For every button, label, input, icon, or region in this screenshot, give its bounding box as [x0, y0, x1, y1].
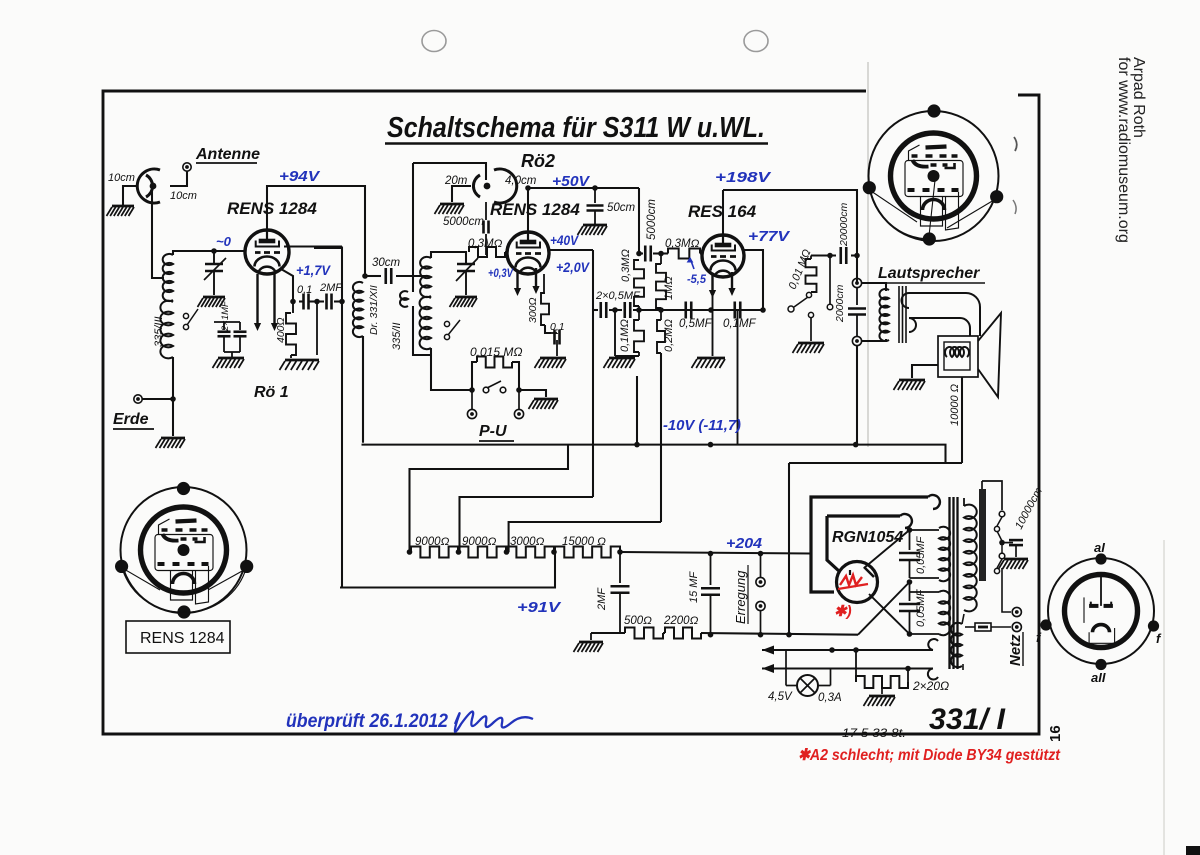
label 15MF — [688, 571, 700, 603]
ground variable capacitor 1 — [198, 297, 226, 307]
wire IF caps — [639, 252, 668, 254]
svg-text:Schaltschema für S311 W u.WL.: Schaltschema für S311 W u.WL. — [387, 112, 765, 144]
wire bottom row y633 — [591, 633, 858, 635]
svg-text:+94V: +94V — [279, 168, 321, 185]
ground 50cm — [578, 225, 608, 235]
node caps mid — [612, 307, 618, 313]
svg-text:Erregung: Erregung — [733, 570, 748, 624]
label 9000Ω a — [415, 536, 450, 548]
wire coil bottom to Erde node — [172, 357, 174, 436]
label +1,7V — [296, 262, 332, 278]
wire 0,015 bypass right — [512, 362, 519, 390]
svg-text:10000 Ω: 10000 Ω — [949, 384, 961, 426]
heater line 1 — [762, 639, 938, 654]
label Rö2 — [521, 151, 555, 171]
capacitor 2000cm — [848, 288, 866, 336]
wire speaker box down — [961, 377, 963, 463]
svg-text:+0,3V: +0,3V — [488, 266, 514, 280]
wire tube1 top to +94V rail — [267, 186, 365, 276]
svg-text:0,2MΩ: 0,2MΩ — [663, 319, 675, 352]
ground tube2 cathode — [535, 358, 567, 368]
transformer core — [950, 497, 958, 669]
node +204 760 — [758, 551, 764, 557]
scan crease line — [867, 62, 869, 447]
svg-text:Erde: Erde — [113, 411, 149, 428]
tube RGN1054 circle — [837, 562, 878, 603]
label 5000cm rotated — [646, 199, 658, 240]
wire H497 — [460, 497, 594, 552]
node grid 1 — [211, 248, 217, 254]
wire antenna terminal to coupler — [170, 171, 187, 186]
wire Erde terminal to node — [142, 398, 173, 400]
switch 0,01MΩ — [788, 292, 814, 317]
wire 20m to ground — [452, 186, 471, 202]
resistor 3000Ω — [507, 547, 554, 558]
label 0,2MΩ — [663, 319, 675, 352]
wire H2 line — [789, 462, 962, 464]
svg-text:aII: aII — [1091, 670, 1106, 685]
diagonal tube to cap2 — [869, 594, 910, 634]
label RES 164 — [688, 202, 757, 221]
svg-text:for www.radiomuseum.org: for www.radiomuseum.org — [1115, 57, 1132, 243]
tube socket bottom left — [115, 482, 253, 619]
node +204 710 — [708, 551, 714, 557]
node res row 506 — [504, 549, 510, 555]
node bottom row 760 — [758, 632, 764, 638]
ground 2x20Ω — [864, 688, 896, 706]
wire 0,1MF down to H1 — [737, 310, 739, 445]
svg-text:0,1: 0,1 — [550, 321, 565, 333]
wire +91V line — [340, 552, 555, 588]
label 0,015MΩ — [470, 345, 523, 359]
svg-text:0,05MF: 0,05MF — [915, 588, 927, 627]
node bottom row 710 — [708, 632, 714, 638]
label 30cm — [372, 257, 401, 269]
wire cap mid down — [316, 302, 318, 356]
Erregung terminal top — [756, 554, 765, 587]
capacitor 5000cm (grid2) — [484, 202, 489, 255]
wire +198V rail — [723, 190, 857, 283]
node P-U left — [469, 387, 475, 393]
heater line 2 — [762, 664, 938, 679]
wire coil2 top to grid net — [431, 252, 466, 264]
node cap column bottom — [907, 631, 913, 637]
wire 30cm line — [365, 275, 428, 277]
svg-text:RENS 1284: RENS 1284 — [140, 630, 225, 647]
wire +204 line — [620, 552, 811, 554]
label +2,0V — [556, 259, 590, 275]
label 0,1MΩ — [619, 319, 631, 352]
speaker loop bottom — [909, 318, 970, 336]
svg-text:0,1MF: 0,1MF — [723, 318, 757, 330]
label 500Ω — [624, 615, 652, 627]
node heater 908 — [905, 666, 911, 672]
P-U terminal left — [467, 392, 476, 419]
svg-text:500Ω: 500Ω — [624, 615, 652, 627]
punch hole right — [744, 31, 768, 52]
svg-text:1MΩ: 1MΩ — [663, 276, 675, 300]
cathode arrow tube1 b — [271, 272, 278, 331]
speaker coil inside — [945, 347, 969, 357]
blue label -10V — [663, 417, 741, 434]
label 15000Ω — [562, 536, 606, 548]
variable capacitor C tune 1 — [204, 251, 226, 295]
socket label aI — [1094, 540, 1105, 555]
svg-text:2200Ω: 2200Ω — [663, 615, 699, 627]
node 30cm junction — [362, 273, 368, 279]
wire plate loop bottom — [811, 554, 834, 593]
tap switch a — [994, 511, 1004, 531]
speaker terminal bottom — [852, 336, 861, 345]
capacitor 0,5MF — [686, 302, 692, 319]
socket label f left — [1036, 630, 1042, 645]
svg-text:5000cm: 5000cm — [443, 216, 484, 228]
svg-text:RENS 1284: RENS 1284 — [227, 199, 317, 218]
cathode arrow tube2 b — [532, 268, 539, 294]
node res row 620 — [617, 549, 623, 555]
wire cap row — [299, 300, 342, 302]
wire +50V drop — [638, 188, 640, 254]
wire tube2 anode — [549, 249, 593, 251]
vertical wire x413 — [412, 163, 414, 292]
wire H2 to PSU — [788, 463, 790, 635]
P-U terminal right — [514, 392, 523, 419]
node bottom row 789 — [786, 632, 792, 638]
paper edge shadow — [1163, 540, 1165, 855]
label +50V — [552, 173, 591, 190]
socket label f right — [1156, 631, 1162, 646]
label 2200Ω — [663, 615, 699, 627]
ground 10000cm — [999, 559, 1029, 569]
node 830 — [827, 253, 833, 259]
tube RES 164 circle — [702, 235, 744, 277]
HT loop outer — [811, 495, 940, 553]
Erde terminal — [134, 395, 142, 403]
wire coupler down to coil tap — [152, 190, 164, 278]
svg-text:+91V: +91V — [517, 599, 562, 616]
band switch 2 — [444, 320, 460, 340]
label 2x1MF — [220, 300, 231, 332]
choke Dr 331/XII — [353, 282, 363, 337]
label 0,3MΩ grid2 — [468, 238, 503, 250]
svg-text:10cm: 10cm — [170, 190, 197, 202]
socket wires top right — [869, 180, 994, 239]
label 2x0,5MF — [595, 290, 641, 302]
node cap row left — [290, 299, 296, 305]
cathode arrow tube1 a — [254, 274, 261, 331]
svg-text:2×20Ω: 2×20Ω — [912, 679, 949, 693]
wire 0,2MΩ down to H522 — [660, 353, 662, 522]
HT secondary winding — [964, 498, 977, 611]
label Erde — [113, 411, 154, 429]
resistor 500Ω — [625, 628, 663, 639]
svg-text:15000 Ω: 15000 Ω — [562, 536, 606, 548]
svg-text:RENS 1284: RENS 1284 — [490, 200, 580, 219]
resistor 300Ω — [541, 274, 551, 333]
coil 335/III lower — [160, 301, 173, 359]
speaker terminal top — [852, 278, 861, 287]
svg-text:30cm: 30cm — [372, 257, 401, 269]
cathode arrow RES164 a — [709, 274, 716, 298]
node IF right — [658, 251, 664, 257]
resistor 15000Ω — [555, 547, 620, 558]
node cap column mid — [907, 579, 913, 585]
switch P-U — [483, 381, 506, 393]
svg-text:+40V: +40V — [550, 232, 579, 248]
svg-text:Dr. 331/XII: Dr. 331/XII — [368, 285, 380, 335]
label 400Ω — [275, 317, 287, 343]
wire P-U right to ground — [521, 390, 546, 397]
capacitor 0,1 (tube2) — [555, 330, 561, 345]
label 10000cm — [1013, 486, 1045, 532]
speaker driver box — [938, 336, 978, 377]
node heater 856 — [853, 647, 859, 653]
red label *) — [834, 603, 852, 620]
resistor 0,3MΩ to RES164 grid — [668, 249, 703, 259]
resistor 0,3MΩ vertical — [634, 260, 644, 310]
speaker loop top — [902, 293, 980, 336]
svg-text:✱A2 schlecht; mit Diode BY34 g: ✱A2 schlecht; mit Diode BY34 gestützt — [798, 747, 1061, 764]
svg-text:17 5 33 8t.: 17 5 33 8t. — [842, 726, 906, 740]
label RGN1054 — [832, 529, 903, 546]
svg-text:0,3MΩ: 0,3MΩ — [620, 249, 632, 282]
page number 16 — [1047, 725, 1064, 742]
svg-text:9000Ω: 9000Ω — [462, 536, 497, 548]
svg-text:2×0,5MF: 2×0,5MF — [595, 290, 641, 302]
svg-text:+1,7V: +1,7V — [296, 262, 332, 278]
label 0,3MΩ vertical — [620, 249, 632, 282]
fuse — [963, 623, 1011, 670]
node Erde junction — [170, 396, 176, 402]
capacitor 2MF (filter) — [611, 552, 630, 633]
node res row 554 — [551, 549, 557, 555]
filament winding upper — [910, 527, 951, 581]
svg-text:-5,5: -5,5 — [687, 272, 706, 286]
label 40cm — [505, 175, 537, 187]
tube Rö2 RENS 1284 circle — [507, 232, 549, 274]
svg-text:0,1MΩ: 0,1MΩ — [619, 319, 631, 352]
svg-text:0,5MF: 0,5MF — [679, 318, 713, 330]
svg-text:Netz: Netz — [1007, 634, 1024, 666]
wire terminal top to primary — [861, 283, 886, 291]
node row 639 — [636, 307, 642, 313]
resistor 0,2MΩ below row — [657, 310, 665, 353]
cathode arrow tube2 a — [514, 270, 521, 296]
ground speaker — [894, 380, 926, 390]
tap switch b — [994, 545, 1004, 574]
node taps — [997, 531, 1005, 545]
label 0,01MΩ — [787, 248, 814, 291]
label +40V — [550, 232, 579, 248]
label 10cm left — [108, 172, 135, 184]
svg-text:15 MF: 15 MF — [688, 571, 700, 603]
label 9000Ω b — [462, 536, 497, 548]
label +91V — [517, 599, 562, 616]
node H1 710 — [708, 442, 714, 448]
Erregung terminal bottom — [756, 601, 765, 634]
label 1MΩ vertical — [663, 276, 675, 300]
resistor 0,01MΩ — [806, 256, 817, 293]
svg-text:2MF: 2MF — [319, 282, 343, 294]
capacitor 2x0,5MF b — [625, 302, 631, 318]
credit text for www.radiomuseum.org — [1115, 57, 1132, 243]
capacitor 0,1MF — [735, 302, 741, 319]
label 0,05MF a — [915, 535, 927, 574]
ground RES cathode — [692, 358, 726, 368]
svg-text:2×1MF: 2×1MF — [220, 300, 231, 332]
wire tube1 cathode branch — [281, 269, 293, 302]
resistor 0,015MΩ — [477, 357, 512, 368]
label 20000cm — [838, 203, 850, 247]
wire switch to ground — [810, 317, 812, 341]
node H1 855 — [853, 442, 859, 448]
rectifier filament winding — [951, 614, 964, 667]
svg-text:überprüft 26.1.2012: überprüft 26.1.2012 — [286, 711, 448, 732]
ghost arc b — [1013, 200, 1016, 214]
coil 335/II upper — [420, 257, 431, 297]
ground antenna — [107, 206, 135, 216]
frame border — [103, 91, 1039, 734]
label P-U — [479, 423, 514, 441]
variable capacitor 2 — [456, 255, 478, 295]
label +198V — [715, 169, 772, 186]
label 300Ω — [527, 297, 539, 323]
svg-text:~0: ~0 — [216, 234, 232, 249]
svg-text:331/ I: 331/ I — [929, 703, 1006, 736]
wire tube1 side to vertical — [284, 245, 342, 247]
resistor 9000Ω a — [411, 547, 458, 558]
ground 20m — [435, 204, 465, 214]
resistor 400Ω — [286, 302, 296, 359]
svg-text:2MF: 2MF — [596, 587, 608, 611]
wire coil2 bottom — [431, 348, 472, 390]
voltage tap bar — [979, 481, 1002, 581]
label 335/II — [391, 322, 403, 350]
diagonal row to caps — [858, 582, 910, 635]
label 2x20Ω — [912, 679, 949, 693]
label 2MF (tube1) — [319, 282, 343, 294]
label Erregung — [733, 565, 748, 624]
node cap row right — [339, 299, 345, 305]
label 20m — [444, 175, 468, 187]
wire to Netz top — [1002, 568, 1011, 612]
wire x363 riser — [362, 336, 364, 443]
ground below Erde node — [156, 438, 186, 448]
label Lautsprecher — [878, 265, 985, 283]
ground 0,01MΩ switch — [793, 343, 825, 353]
svg-text:✱): ✱) — [834, 603, 852, 620]
resistor 2200Ω — [665, 628, 701, 639]
page corner mark bottom-right — [1186, 846, 1200, 855]
antenna terminal — [183, 163, 191, 171]
node cap row mid — [314, 299, 320, 305]
HT loop inner — [827, 514, 912, 572]
wire branch 0,01M — [811, 254, 857, 256]
wire speaker vertical — [856, 346, 857, 445]
label 4,5V — [768, 691, 793, 703]
speaker cone — [978, 313, 1001, 397]
svg-text:0,3A: 0,3A — [818, 692, 842, 704]
capacitor 0,1 (tube1) — [304, 294, 309, 310]
wire row y310 — [593, 309, 763, 311]
wire H469 — [410, 445, 569, 552]
socket wires bottom left — [122, 566, 247, 612]
output transformer primary coil — [879, 289, 889, 341]
label 5000cm (grid2) — [443, 216, 484, 228]
wire tube2 top cap — [527, 188, 529, 232]
node res row 413 — [407, 549, 413, 555]
svg-text:Rö2: Rö2 — [521, 151, 555, 171]
credit text Arpad Roth — [1130, 57, 1147, 138]
svg-text:+2,0V: +2,0V — [556, 259, 590, 275]
capacitor 0,05MF a — [899, 530, 920, 578]
resistor 9000Ω b — [459, 547, 506, 558]
node 50cm — [592, 185, 598, 191]
ground P-U — [529, 399, 559, 409]
wire RES164 top — [722, 190, 724, 235]
node P-U right — [516, 387, 522, 393]
vertical link x314 — [314, 247, 342, 249]
wire x413 lower — [413, 306, 431, 355]
label +94V — [279, 168, 321, 185]
socket label aII — [1091, 670, 1106, 685]
svg-text:+77V: +77V — [748, 228, 791, 245]
svg-text:20000cm: 20000cm — [838, 203, 850, 247]
label RENS 1284 (tube1) — [227, 199, 317, 218]
capacitor 2MF (tube1) — [327, 294, 332, 310]
IF coupling capacitor 5000cm — [645, 246, 651, 262]
resistor 2x20Ω — [856, 650, 908, 688]
wire speaker box to ground — [912, 365, 938, 378]
dial lamp — [786, 650, 831, 696]
svg-text:Antenne: Antenne — [195, 146, 260, 163]
wire grid cap top route — [413, 163, 486, 180]
resistor 0,3MΩ grid2 — [469, 247, 508, 257]
svg-text:Rö 1: Rö 1 — [254, 384, 289, 401]
label 331/I — [929, 703, 1006, 736]
diagonal tube to cap1 — [864, 530, 910, 568]
label 2MF (filter) — [596, 587, 608, 611]
capacitor 2x1MF — [214, 322, 247, 357]
wire H522 — [509, 522, 661, 552]
node row 763 — [760, 307, 766, 313]
label 17 5 33 84 — [842, 726, 906, 740]
label 10000 Ω — [949, 384, 961, 426]
label Netz — [1007, 632, 1024, 666]
Netz terminal top — [1012, 607, 1021, 616]
svg-text:335/III: 335/III — [153, 316, 165, 347]
label 0,05MF b — [915, 588, 927, 627]
svg-text:5000cm: 5000cm — [646, 199, 658, 240]
label 0,3MΩ (RES grid) — [665, 238, 700, 250]
title Schaltschema fur S311 W u.WL. — [385, 112, 768, 144]
node IF left — [636, 251, 642, 257]
svg-text:10cm: 10cm — [108, 172, 135, 184]
ground bottom row — [574, 633, 604, 652]
svg-text:50cm: 50cm — [607, 202, 636, 214]
svg-text:0,3MΩ: 0,3MΩ — [468, 238, 503, 250]
label 0,5MF — [679, 318, 713, 330]
label 0,3A — [818, 692, 842, 704]
svg-text:4,5V: 4,5V — [768, 691, 793, 703]
punch hole left — [422, 31, 446, 52]
svg-text:aI: aI — [1094, 540, 1105, 555]
svg-text:+198V: +198V — [715, 169, 772, 186]
node row 711 — [708, 307, 714, 313]
svg-text:P-U: P-U — [479, 423, 507, 440]
svg-text:9000Ω: 9000Ω — [415, 536, 450, 548]
svg-text:4,0cm: 4,0cm — [505, 175, 537, 187]
